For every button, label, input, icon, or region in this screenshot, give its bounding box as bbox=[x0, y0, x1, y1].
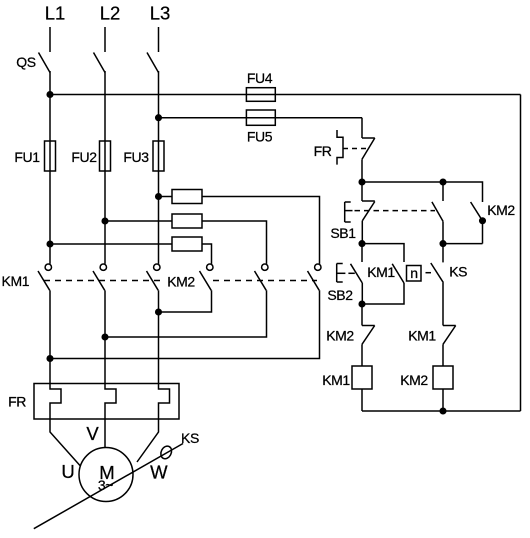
contactor KM1 main contact 3 bbox=[154, 264, 160, 270]
wire FU4 to right rail bbox=[520, 95, 522, 412]
contactor KM2 main contact 5 bbox=[262, 264, 268, 270]
wire KM1 contact 2 down bbox=[104, 290, 106, 383]
wire KM2 coil to bottom rail bbox=[442, 389, 444, 411]
svg-text:FU1: FU1 bbox=[14, 149, 40, 165]
contactor KM1 NC interlock contact bbox=[443, 325, 456, 327]
wire KM2 contact 6 to U phase bbox=[50, 290, 320, 358]
svg-text:KM1: KM1 bbox=[367, 264, 395, 280]
node A junction bbox=[359, 179, 365, 185]
fuse FU2 bbox=[100, 141, 111, 171]
contactor KM2 aux label bbox=[487, 202, 515, 218]
fuse FU1 bbox=[45, 141, 56, 171]
node junction L1 to resistor 3 bbox=[47, 241, 53, 247]
thermal relay FR heater box bbox=[34, 384, 179, 420]
contactor KM1 main contacts label bbox=[2, 273, 30, 289]
svg-text:KM1: KM1 bbox=[322, 372, 350, 388]
mechanical link dashes KM2 contacts bbox=[213, 280, 317, 282]
fuse FU3 label bbox=[123, 149, 149, 165]
mechanical link dash n to KS bbox=[426, 272, 432, 274]
wire L1 from QS through FU1 to KM1 contact bbox=[49, 71, 51, 264]
pushbutton SB1 linked NO contact bbox=[442, 182, 444, 201]
contactor KM2 NC interlock contact bbox=[361, 304, 363, 326]
wire KM1 contact 1 down bbox=[49, 290, 51, 383]
contactor KM1 main contact 2 bbox=[100, 264, 106, 270]
contactor KM1 NC interlock label bbox=[408, 328, 436, 344]
speed switch KS NO contact bbox=[442, 244, 444, 263]
wire L2 incoming stub bbox=[104, 27, 106, 52]
thermal relay FR heater 2 bbox=[105, 384, 116, 420]
svg-text:FU5: FU5 bbox=[247, 129, 273, 145]
svg-text:n: n bbox=[410, 265, 417, 281]
node junction L3 control tap bbox=[156, 115, 162, 121]
svg-text:KM2: KM2 bbox=[167, 274, 195, 290]
svg-text:QS: QS bbox=[16, 54, 35, 70]
fuse FU2 label bbox=[71, 149, 97, 165]
node junction SB1 bottom bbox=[359, 241, 365, 247]
fuse FU5 label bbox=[247, 129, 273, 145]
contactor KM2 aux NO contact bbox=[471, 202, 483, 221]
node U terminal label bbox=[61, 461, 74, 482]
wire L1 incoming stub bbox=[49, 27, 51, 52]
wire W lead to motor bbox=[137, 419, 159, 462]
contactor KM1 aux label bbox=[367, 264, 395, 280]
wire control tap to FU4 bbox=[50, 94, 521, 96]
svg-text:FU2: FU2 bbox=[71, 149, 97, 165]
switch QS pole 1 blade bbox=[39, 53, 51, 73]
speed switch KS label bbox=[449, 264, 467, 280]
svg-text:U: U bbox=[61, 461, 74, 482]
pushbutton SB2 actuator bbox=[336, 264, 338, 283]
pushbutton SB1 label bbox=[330, 225, 356, 241]
svg-text:L1: L1 bbox=[45, 3, 66, 24]
wire resistor 1 to KM2 contact 6 bbox=[202, 197, 320, 264]
fuse FU4 label bbox=[247, 70, 273, 86]
wire FU5 to FR contact bbox=[361, 118, 363, 138]
node junction L3 to resistor 1 bbox=[156, 194, 162, 200]
node L2 label bbox=[100, 3, 121, 24]
wire L3 to resistor 1 bbox=[159, 196, 173, 198]
mechanical link dash SB2 bbox=[348, 272, 354, 274]
motor 3~ label bbox=[98, 477, 113, 493]
node junction top rail at B bbox=[440, 179, 446, 185]
wire L2 from QS through FU2 to KM1 contact bbox=[104, 71, 106, 264]
pushbutton SB2 label bbox=[327, 287, 353, 303]
svg-text:SB1: SB1 bbox=[330, 225, 356, 241]
thermal relay FR label bbox=[8, 394, 26, 410]
contactor KM2 main contact 6 bbox=[315, 264, 321, 270]
thermal relay FR NC contact in control circuit bbox=[362, 137, 375, 139]
resistor R3 bbox=[172, 237, 202, 251]
speed sensor KS label bbox=[181, 430, 199, 446]
fuse FU1 label bbox=[14, 149, 40, 165]
svg-text:L2: L2 bbox=[100, 3, 121, 24]
thermal relay FR actuator bbox=[337, 130, 343, 165]
wire L3 from QS through FU3 to KM1 contact bbox=[158, 71, 160, 264]
node L3 label bbox=[150, 3, 171, 24]
switch QS label bbox=[16, 54, 35, 70]
wire L1 to resistor 3 bbox=[50, 243, 172, 245]
svg-text:V: V bbox=[86, 423, 99, 444]
wire U lead to motor bbox=[50, 419, 80, 466]
node junction L1 control tap bbox=[47, 92, 53, 98]
svg-text:KM2: KM2 bbox=[487, 202, 515, 218]
motor M circle bbox=[79, 448, 133, 502]
coil KM1 label bbox=[322, 372, 350, 388]
svg-text:FU4: FU4 bbox=[247, 70, 273, 86]
coil KM2 label bbox=[400, 372, 428, 388]
svg-text:FU3: FU3 bbox=[123, 149, 149, 165]
svg-text:FR: FR bbox=[8, 394, 26, 410]
svg-text:W: W bbox=[150, 462, 168, 483]
wire resistor 2 to KM2 contact 5 bbox=[202, 221, 267, 264]
svg-text:KM1: KM1 bbox=[2, 273, 30, 289]
wire V lead to motor bbox=[104, 419, 106, 448]
wire KM1 coil to bottom rail bbox=[361, 389, 363, 411]
svg-text:FR: FR bbox=[314, 143, 332, 159]
contactor KM2 main contacts label bbox=[167, 274, 195, 290]
switch QS pole 3 blade bbox=[147, 53, 159, 73]
fuse FU4 bbox=[246, 88, 275, 102]
node W terminal label bbox=[150, 462, 168, 483]
node B junction bbox=[440, 241, 446, 247]
pushbutton SB1 actuator bbox=[344, 202, 346, 222]
contactor KM1 main contact 1 bbox=[45, 264, 51, 270]
mechanical link dashes KM1 contacts bbox=[44, 280, 160, 282]
resistor R1 bbox=[172, 190, 202, 204]
svg-text:L3: L3 bbox=[150, 3, 171, 24]
svg-text:KS: KS bbox=[449, 264, 467, 280]
contactor KM2 NC interlock label bbox=[326, 328, 354, 344]
pushbutton SB2 NO contact bbox=[361, 244, 363, 262]
contactor KM2 main contact 4 bbox=[207, 264, 213, 270]
thermal relay FR heater 1 bbox=[50, 384, 61, 420]
wire FR contact to node A bbox=[361, 159, 363, 182]
wire KM2 aux to node B bbox=[443, 243, 483, 245]
mechanical link dash SB1 to NO contact bbox=[355, 210, 436, 212]
thermal relay FR contact label bbox=[314, 143, 332, 159]
node junction W phase bbox=[156, 309, 162, 315]
node junction SB2 bottom bbox=[359, 301, 365, 307]
thermal relay FR heater 3 bbox=[159, 384, 170, 420]
node junction L2 to resistor 2 bbox=[102, 218, 108, 224]
motor M letter bbox=[99, 462, 114, 483]
node junction U phase bbox=[47, 356, 53, 362]
speed relay n box bbox=[407, 266, 422, 282]
svg-text:KM2: KM2 bbox=[400, 372, 428, 388]
wire KM2 contact 5 to V phase bbox=[105, 290, 267, 337]
svg-text:SB2: SB2 bbox=[327, 287, 353, 303]
wire resistor 3 to KM2 contact 4 bbox=[202, 244, 212, 264]
svg-text:KM1: KM1 bbox=[408, 328, 436, 344]
wire top rail node A to KM2 aux branch bbox=[362, 182, 483, 202]
motor shaft line bbox=[34, 444, 183, 529]
wire L3 tap to FU5 bbox=[159, 117, 363, 119]
fuse FU3 bbox=[153, 141, 164, 171]
contactor KM1 aux self-holding NO contact bbox=[362, 244, 404, 262]
svg-text:KS: KS bbox=[181, 430, 199, 446]
wire KM1 contact 3 down bbox=[158, 290, 160, 383]
mechanical link dash FR bbox=[343, 148, 368, 150]
resistor R2 bbox=[172, 214, 202, 228]
node V terminal label bbox=[86, 423, 99, 444]
switch QS pole 2 blade bbox=[94, 53, 106, 73]
wire L3 incoming stub bbox=[158, 27, 160, 52]
coil KM2 bbox=[433, 366, 453, 389]
wire L2 to resistor 2 bbox=[105, 220, 172, 222]
wire KM2 contact 4 to W phase bbox=[159, 290, 212, 312]
coil KM1 bbox=[352, 366, 372, 389]
wire bottom rail bbox=[362, 410, 521, 412]
node junction V phase bbox=[102, 334, 108, 340]
node L1 label bbox=[45, 3, 66, 24]
pushbutton SB1 NC contact bbox=[361, 182, 363, 201]
fuse FU5 bbox=[246, 110, 275, 125]
svg-text:KM2: KM2 bbox=[326, 328, 354, 344]
node junction bottom rail bbox=[440, 408, 446, 414]
speed sensor KS disc bbox=[159, 444, 174, 460]
